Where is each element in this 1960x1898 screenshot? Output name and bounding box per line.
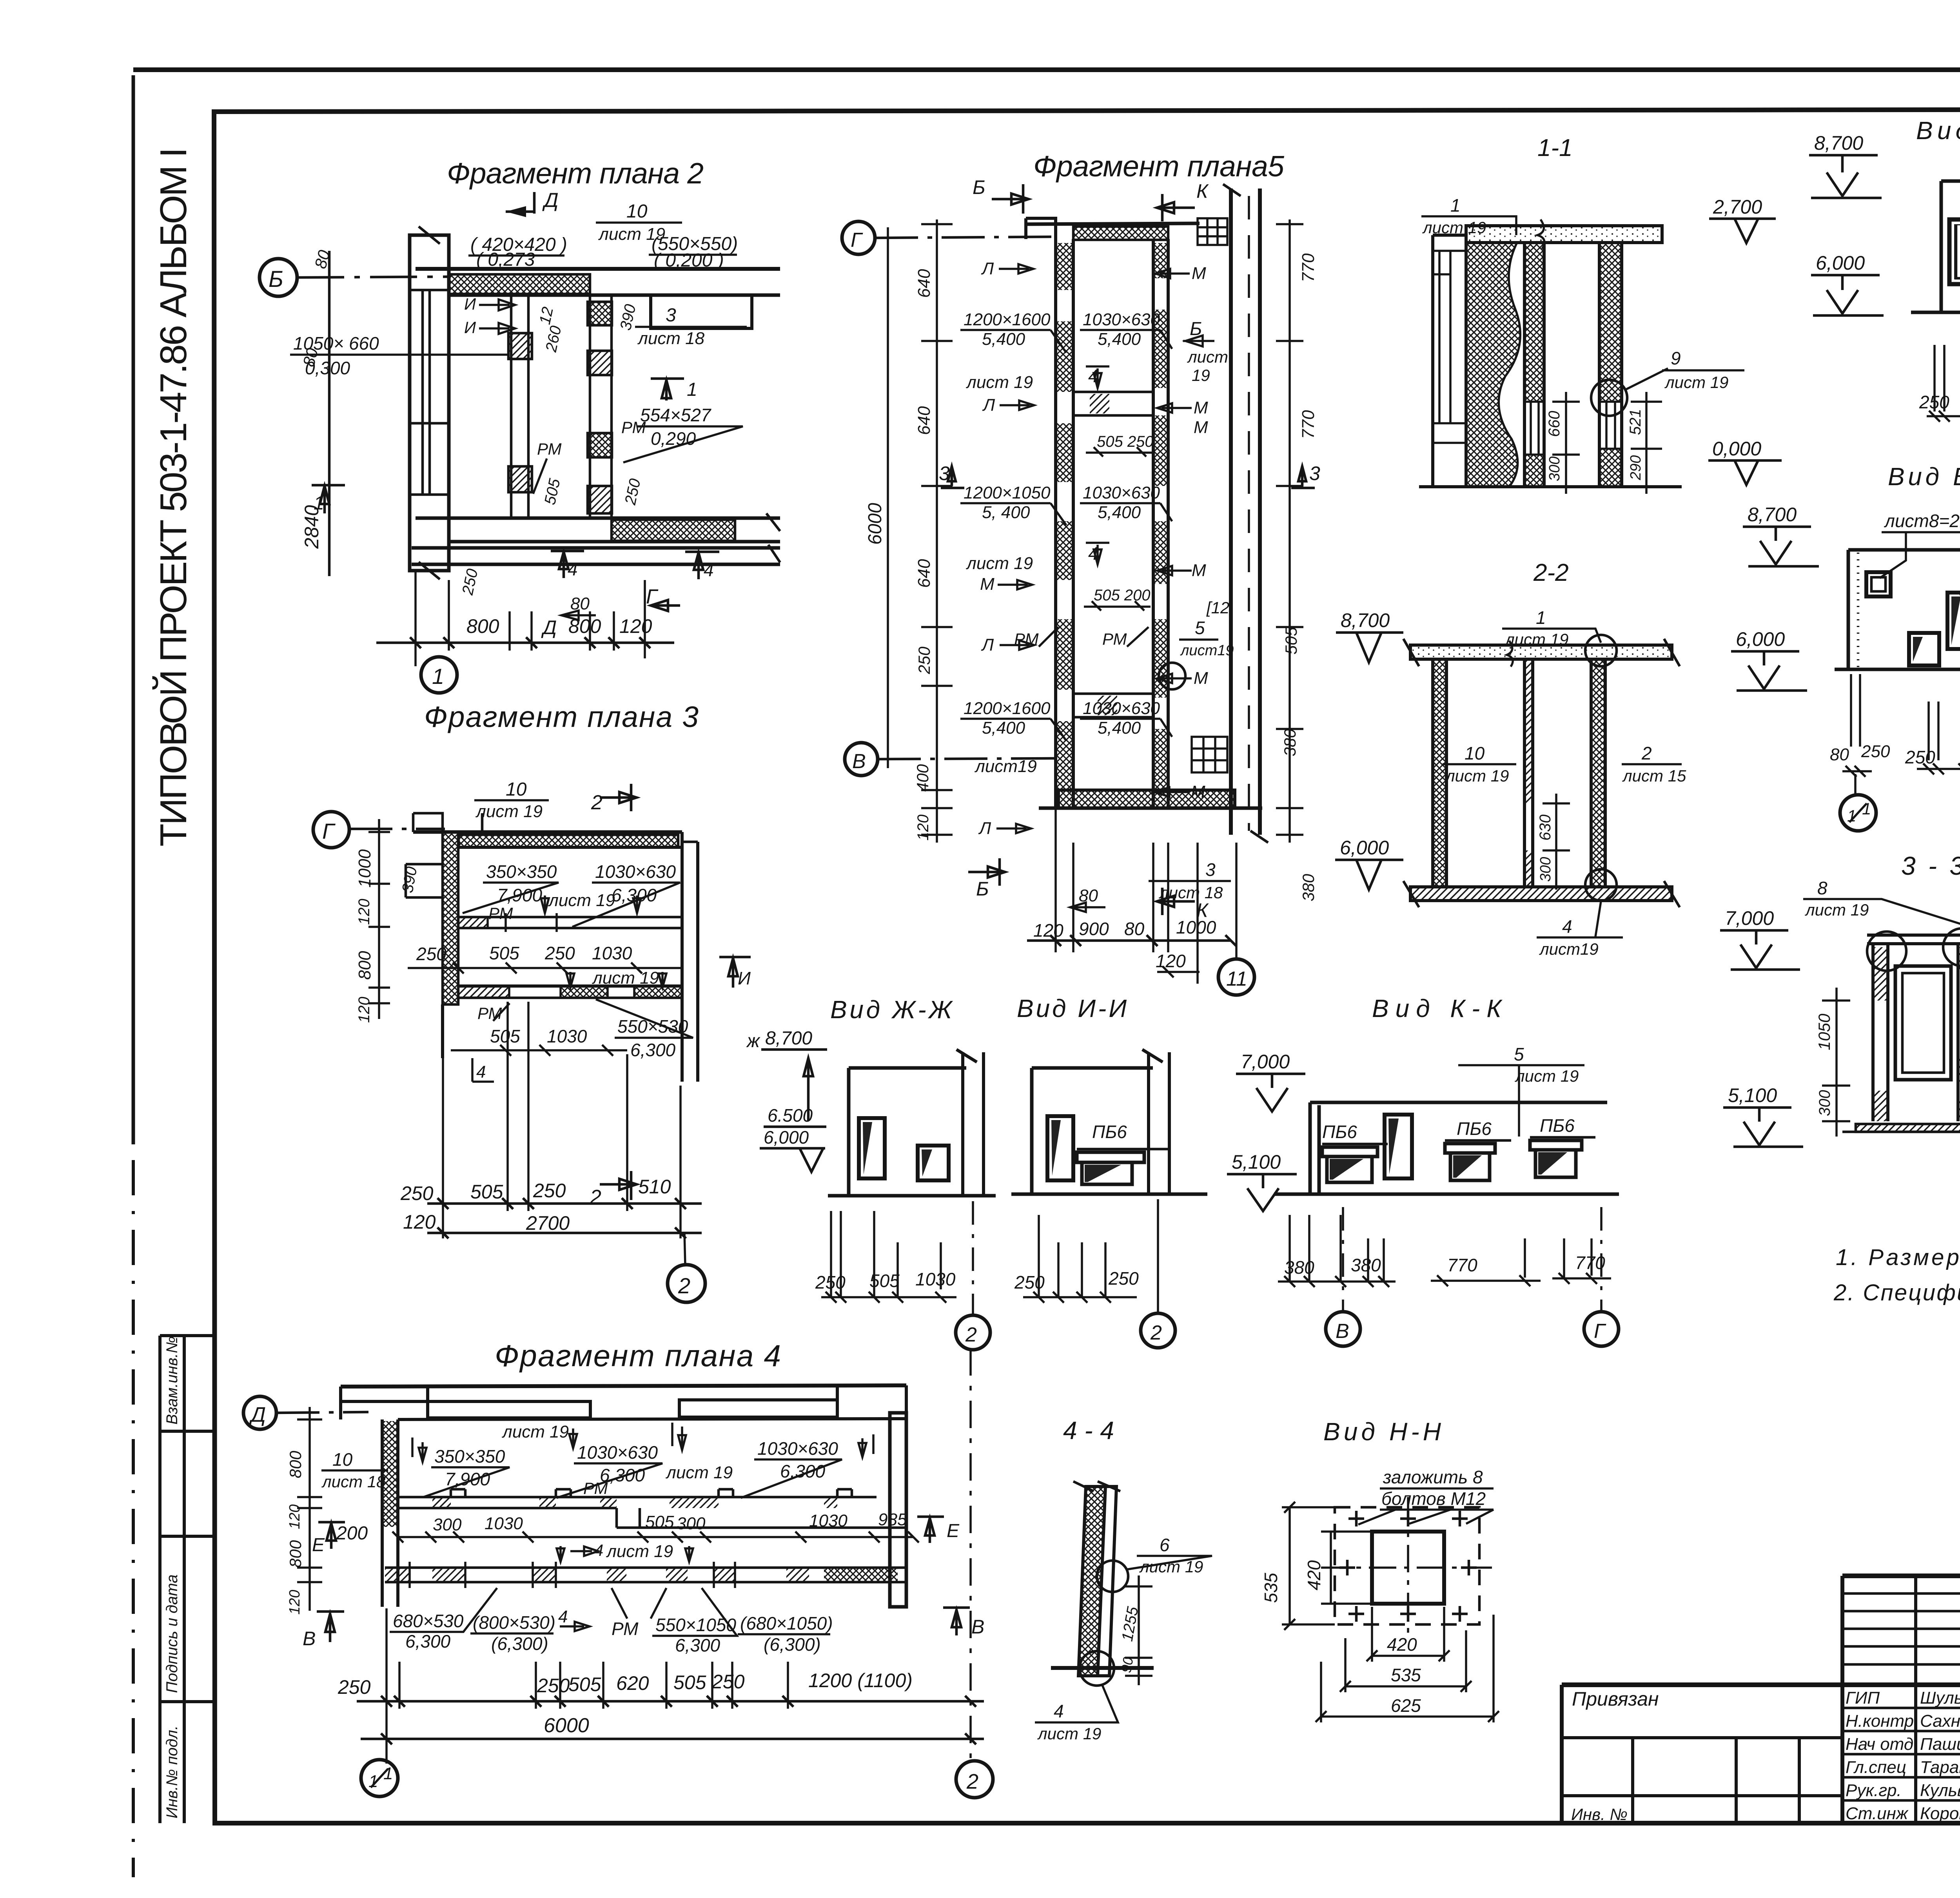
svg-text:510: 510 [638,1176,671,1198]
svg-text:550×530: 550×530 [617,1016,688,1037]
4 list19 row [570,1546,598,1556]
svg-text:лист 18: лист 18 [1158,883,1223,902]
svg-text:ГИП: ГИП [1846,1688,1880,1708]
dashed outer square [1335,1507,1479,1624]
persons rows text [1846,1688,1960,1823]
svg-text:521: 521 [1627,409,1644,435]
svg-text:0,000: 0,000 [1712,438,1761,460]
svg-text:400: 400 [913,764,932,792]
svg-text:1200 (1100): 1200 (1100) [808,1670,913,1691]
svg-text:7,000: 7,000 [1725,907,1774,929]
svg-text:250: 250 [1014,1272,1045,1293]
svg-text:Л: Л [982,395,995,415]
svg-text:380: 380 [1281,729,1299,756]
В marks [317,1612,344,1642]
svg-text:380: 380 [1284,1257,1314,1278]
svg-text:2: 2 [966,1770,978,1793]
svg-text:4: 4 [568,559,578,579]
3 section marks [941,466,964,488]
svg-text:3: 3 [666,305,676,326]
svg-text:болтов М12: болтов М12 [1381,1488,1486,1509]
svg-text:505: 505 [490,1026,520,1046]
left wall [1433,659,1446,887]
svg-text:Г: Г [851,229,863,252]
svg-text:1: 1 [383,1764,393,1783]
middle partition [458,917,682,928]
svg-text:6,000: 6,000 [1816,252,1865,274]
svg-text:В: В [852,750,866,773]
outer border top [133,67,1960,72]
Е 200 left [318,1522,345,1549]
svg-text:350×350: 350×350 [434,1446,505,1467]
svg-text:1030×630: 1030×630 [757,1438,838,1459]
witness lines + dims [1851,674,1960,764]
svg-text:РМ: РМ [537,440,562,458]
svg-text:6000: 6000 [865,503,886,545]
left dim chain [309,1407,311,1611]
svg-text:(680×1050): (680×1050) [740,1613,833,1633]
svg-text:120: 120 [1156,951,1186,971]
svg-text:8: 8 [1817,878,1828,898]
svg-text:И: И [738,968,751,988]
svg-text:1030: 1030 [809,1511,848,1530]
svg-text:ПБ6: ПБ6 [1457,1118,1492,1139]
svg-text:4: 4 [1088,543,1098,564]
svg-text:М: М [1191,782,1205,801]
svg-text:лист19: лист19 [1539,940,1599,958]
svg-text:11: 11 [1226,968,1247,990]
svg-text:лист19: лист19 [974,757,1037,776]
svg-text:6,000: 6,000 [764,1127,809,1148]
svg-text:2. Спецификацию перемычек с: 2. Спецификацию перемычек см. лист 15. [1833,1280,1960,1305]
svg-text:1: 1 [1536,607,1546,628]
svg-text:120: 120 [356,997,373,1023]
svg-text:( 0,200 ): ( 0,200 ) [654,250,724,271]
svg-text:770: 770 [1447,1255,1477,1275]
right wall [1591,659,1605,887]
svg-text:Л: Л [981,259,994,278]
right inner wall [1153,239,1168,808]
svg-text:2: 2 [678,1273,690,1298]
svg-text:10: 10 [626,201,648,222]
svg-text:4-4: 4-4 [1063,1416,1114,1445]
svg-text:2-2: 2-2 [1533,559,1569,586]
svg-text:(800×530): (800×530) [473,1612,555,1633]
svg-text:6.500: 6.500 [768,1105,813,1126]
svg-text:250: 250 [1861,742,1890,761]
title block outer lines [1842,1574,1960,1578]
svg-text:5,400: 5,400 [1098,330,1141,349]
svg-text:Б: Б [973,176,985,198]
svg-text:6,000: 6,000 [1340,837,1389,859]
svg-text:250: 250 [1919,392,1949,412]
svg-text:Г: Г [646,586,659,608]
svg-text:И: И [464,318,476,337]
svg-text:6000: 6000 [544,1714,589,1737]
svg-text:5,400: 5,400 [1098,503,1141,522]
svg-text:лист 19: лист 19 [1514,1067,1579,1085]
svg-text:2: 2 [591,791,603,814]
svg-text:1050× 660: 1050× 660 [293,333,379,353]
svg-text:5, 400: 5, 400 [982,503,1030,522]
svg-text:В: В [1336,1320,1349,1343]
svg-text:Подпись и дата: Подпись и дата [163,1574,181,1693]
svg-text:лист: лист [1187,348,1228,366]
svg-text:лист 19: лист 19 [965,373,1033,392]
svg-text:3 - 3: 3 - 3 [1901,851,1960,880]
circle 1 [421,657,457,693]
svg-text:лист 18: лист 18 [637,329,705,348]
svg-text:В: В [303,1628,316,1650]
svg-text:1: 1 [368,1772,378,1791]
svg-text:М: М [1194,669,1208,688]
svg-text:Е: Е [312,1535,325,1555]
bottom dim chain [443,1002,681,1238]
svg-text:535: 535 [1391,1665,1421,1685]
svg-text:( 0,273: ( 0,273 [476,249,535,270]
svg-text:1050: 1050 [1815,1013,1833,1050]
svg-text:Гл.спец: Гл.спец [1846,1758,1906,1777]
svg-text:985: 985 [878,1510,907,1529]
window labels column right [1083,310,1160,738]
svg-text:Вид И-И: Вид И-И [1017,994,1127,1022]
svg-text:РМ: РМ [488,904,513,923]
windows [1866,572,1891,596]
left wall hatched segments [1056,224,1073,808]
svg-text:лист 19: лист 19 [475,802,543,821]
svg-text:1: 1 [432,664,444,689]
svg-text:1. Размеры и отметки отвер: 1. Размеры и отметки отверстий в скобках… [1836,1245,1960,1270]
persons name rows [1842,1708,1960,1800]
axis circle Д [243,1396,276,1429]
svg-text:250: 250 [537,1675,570,1697]
top band [1027,223,1200,224]
svg-text:250: 250 [711,1671,745,1693]
dims [831,1211,941,1297]
svg-text:250: 250 [1905,747,1935,767]
axis circle В [845,743,878,776]
svg-text:640: 640 [915,269,934,298]
svg-text:Шульгин: Шульгин [1920,1688,1960,1708]
svg-text:лист 19: лист 19 [665,1463,733,1482]
wall strips [1078,1486,1105,1676]
svg-text:ПБ6: ПБ6 [1092,1122,1127,1142]
svg-text:350×350: 350×350 [486,861,557,882]
svg-text:8,700: 8,700 [1341,609,1390,631]
bottom band [1058,790,1235,808]
svg-text:80: 80 [1830,745,1849,764]
svg-text:300: 300 [433,1515,462,1534]
4 arrows [551,551,584,578]
svg-text:Рук.гр.: Рук.гр. [1846,1781,1902,1800]
svg-text:505: 505 [869,1271,900,1291]
svg-text:1: 1 [1862,799,1871,818]
svg-text:4: 4 [594,1541,603,1559]
svg-text:6,300: 6,300 [675,1635,720,1655]
svg-text:630: 630 [1537,814,1554,841]
svg-text:[12: [12 [1206,598,1229,617]
svg-text:505: 505 [673,1671,706,1693]
svg-text:3: 3 [1205,859,1216,880]
svg-text:1030×630: 1030×630 [577,1442,658,1463]
svg-text:1000: 1000 [355,849,374,888]
svg-text:800: 800 [286,1540,305,1568]
svg-text:Н.контр: Н.контр [1846,1711,1914,1731]
svg-text:РМ: РМ [477,1004,502,1022]
svg-text:лист 19: лист 19 [1037,1724,1101,1743]
svg-text:535: 535 [1261,1573,1281,1603]
Е right [917,1517,944,1543]
svg-text:505: 505 [1282,627,1300,654]
svg-text:лист 19: лист 19 [592,968,659,988]
niche small box left [406,864,443,897]
svg-text:К: К [1196,180,1209,202]
svg-text:250: 250 [915,646,933,674]
svg-text:Л: Л [978,819,991,838]
left column [410,235,449,571]
svg-text:Привязан: Привязан [1572,1688,1659,1710]
svg-text:М: М [1192,561,1206,580]
svg-text:1: 1 [1450,195,1461,216]
svg-text:Вид К-К: Вид К-К [1372,994,1503,1022]
lower wall band [385,1568,906,1582]
svg-text:10: 10 [506,779,527,800]
left wall [382,1419,398,1607]
svg-text:М: М [1194,398,1208,417]
svg-text:Нач отд: Нач отд [1846,1735,1913,1754]
svg-text:1: 1 [314,493,324,514]
svg-text:4: 4 [1054,1701,1064,1721]
svg-text:1030: 1030 [915,1269,956,1289]
svg-text:2,700: 2,700 [1713,196,1762,218]
svg-text:9: 9 [1671,348,1681,368]
svg-text:РМ: РМ [1014,630,1039,648]
svg-text:680×530: 680×530 [393,1611,464,1631]
svg-text:300: 300 [1546,457,1563,481]
interior dims [398,1536,913,1538]
svg-text:Л: Л [981,635,994,654]
svg-text:5,100: 5,100 [1232,1151,1281,1173]
svg-text:2: 2 [965,1323,977,1346]
svg-text:0,290: 0,290 [651,428,696,449]
svg-text:800: 800 [286,1450,305,1478]
svg-text:РМ: РМ [621,418,646,437]
svg-text:640: 640 [915,406,934,435]
svg-text:лист 19: лист 19 [1445,767,1509,785]
svg-text:Д: Д [249,1403,266,1427]
bottom dims [416,571,645,666]
svg-text:М: М [980,575,995,594]
svg-text:80: 80 [1079,886,1098,905]
1 up-arrow left [312,485,345,513]
outer border left (solid then dash-dot) [132,75,135,1144]
wall 1 [1524,243,1544,487]
building outline [1941,181,1960,312]
svg-text:7,900: 7,900 [445,1469,490,1489]
axis circle Г [313,812,349,848]
svg-text:120: 120 [403,1211,436,1233]
svg-text:Инв.№ подл.: Инв.№ подл. [163,1726,181,1818]
svg-text:12: 12 [536,305,557,326]
svg-text:200: 200 [336,1523,368,1544]
stamp boxes bottom-left [160,1336,214,1823]
ground [1051,1666,1154,1670]
right dim chain [1289,219,1291,843]
top wall [413,830,682,834]
svg-text:Фрагмент плана5: Фрагмент плана5 [1033,150,1284,183]
svg-text:6,000: 6,000 [1736,628,1785,650]
left wall hatched [443,832,458,1004]
svg-text:554×527: 554×527 [640,405,711,425]
svg-text:Б: Б [976,878,989,900]
detail circles [1585,635,1617,666]
svg-text:8,700: 8,700 [765,1028,812,1049]
svg-text:2: 2 [590,1186,601,1209]
svg-text:2: 2 [1641,743,1652,763]
axis circle Г [842,221,875,254]
svg-text:1200×1600: 1200×1600 [964,699,1051,718]
svg-text:лист19: лист19 [1180,642,1234,659]
right wall column [890,1413,906,1607]
svg-text:Фрагмент плана 3: Фрагмент плана 3 [424,700,699,733]
svg-text:120: 120 [1033,920,1063,941]
svg-text:5,400: 5,400 [1098,718,1141,738]
top corner piece [1026,218,1056,239]
svg-text:300: 300 [1537,857,1554,882]
svg-text:8,700: 8,700 [1748,504,1797,526]
svg-text:290: 290 [1628,455,1644,480]
outline [1848,550,1960,669]
door frame [1895,966,1951,1080]
top slab dotted [1466,226,1662,243]
svg-text:505: 505 [489,943,519,963]
svg-text:90: 90 [1118,1656,1136,1674]
circle 2 [684,1233,685,1265]
svg-text:лист 19: лист 19 [501,1422,569,1441]
svg-text:260: 260 [543,324,565,353]
svg-text:РМ: РМ [612,1619,639,1639]
persons table verticals [1916,1576,1960,1823]
svg-text:420: 420 [1387,1634,1417,1655]
svg-text:лист 19: лист 19 [606,1542,673,1561]
svg-text:120: 120 [619,615,652,637]
ground line [1911,311,1960,314]
left wall [1873,944,1888,1121]
svg-text:Г: Г [1594,1320,1606,1343]
svg-text:250: 250 [400,1182,434,1204]
svg-text:1030×630: 1030×630 [1083,699,1160,718]
svg-text:1030×630: 1030×630 [1083,483,1160,502]
svg-text:Вид В-В: Вид В-В [1888,462,1960,491]
svg-text:лист 19: лист 19 [1139,1557,1203,1576]
svg-text:120: 120 [287,1590,303,1615]
svg-text:505 250: 505 250 [1097,433,1154,450]
left block [1433,235,1466,487]
bolt crosses [1339,1511,1477,1622]
bottom wall band [416,517,780,520]
svg-text:19: 19 [1192,366,1210,384]
svg-text:250: 250 [815,1272,846,1293]
svg-text:900: 900 [1079,919,1109,939]
inner solid square [1372,1532,1444,1604]
svg-text:РМ: РМ [1102,630,1127,648]
center lines [1321,1566,1494,1569]
detail circles [1097,1561,1128,1592]
svg-text:640: 640 [915,559,934,588]
svg-text:250: 250 [416,944,446,964]
svg-text:3: 3 [939,462,950,484]
svg-text:770: 770 [1299,253,1318,282]
svg-text:660: 660 [1546,411,1563,437]
svg-text:80: 80 [570,594,590,613]
svg-text:505: 505 [645,1512,674,1532]
4 arrows [1086,366,1109,388]
circle 11 [1235,843,1238,959]
svg-text:300: 300 [677,1514,706,1533]
svg-text:лист 19: лист 19 [965,554,1033,573]
svg-text:5,400: 5,400 [982,330,1025,349]
svg-text:Е: Е [947,1521,960,1541]
svg-text:4: 4 [558,1607,568,1626]
svg-text:620: 620 [616,1672,649,1694]
left dim chain [936,219,938,843]
svg-text:лист 15: лист 15 [1622,767,1686,785]
bottom dim chain [387,1608,788,1764]
svg-text:Фрагмент плана 4: Фрагмент плана 4 [495,1338,781,1373]
left part rows [1562,1738,1842,1796]
middle wall [1524,659,1533,887]
svg-text:800: 800 [466,615,499,637]
svg-text:300: 300 [1816,1090,1833,1116]
svg-text:10: 10 [332,1449,353,1470]
svg-text:250: 250 [544,943,575,963]
svg-text:505: 505 [541,477,564,506]
svg-text:4: 4 [1088,366,1098,386]
svg-text:120: 120 [356,899,373,925]
svg-text:Пашинцев: Пашинцев [1920,1735,1960,1754]
cross stubs [1073,392,1153,415]
rotated dims [1552,392,1580,494]
svg-text:250: 250 [622,477,644,506]
witness lines to bottom [1056,808,1198,984]
svg-text:ж: ж [746,1031,760,1051]
svg-text:лист 19: лист 19 [1804,901,1869,919]
svg-text:М: М [1194,418,1208,437]
2 section arrow [600,1171,637,1200]
window big [1949,219,1960,284]
svg-text:505: 505 [470,1181,503,1203]
svg-text:770: 770 [1299,410,1318,439]
wavy crosshatch [1466,243,1520,487]
svg-text:5,400: 5,400 [982,718,1025,738]
dims [1290,1215,1592,1282]
svg-text:Таран: Таран [1920,1758,1960,1777]
svg-text:М: М [1192,264,1206,283]
circles [1854,774,1857,795]
svg-text:Кульвец: Кульвец [1920,1781,1960,1800]
svg-text:ПБ6: ПБ6 [1540,1115,1575,1136]
partition 2 [590,295,612,518]
svg-text:1000: 1000 [1176,917,1216,937]
svg-text:7,900: 7,900 [497,885,543,905]
svg-text:Инв. №: Инв. № [1571,1805,1628,1824]
middle wall [1958,944,1960,1121]
top slab [1410,645,1672,659]
svg-text:420: 420 [1304,1560,1324,1590]
svg-text:2: 2 [1150,1322,1162,1344]
svg-text:лист 19: лист 19 [548,891,615,910]
svg-text:2700: 2700 [526,1212,570,1234]
